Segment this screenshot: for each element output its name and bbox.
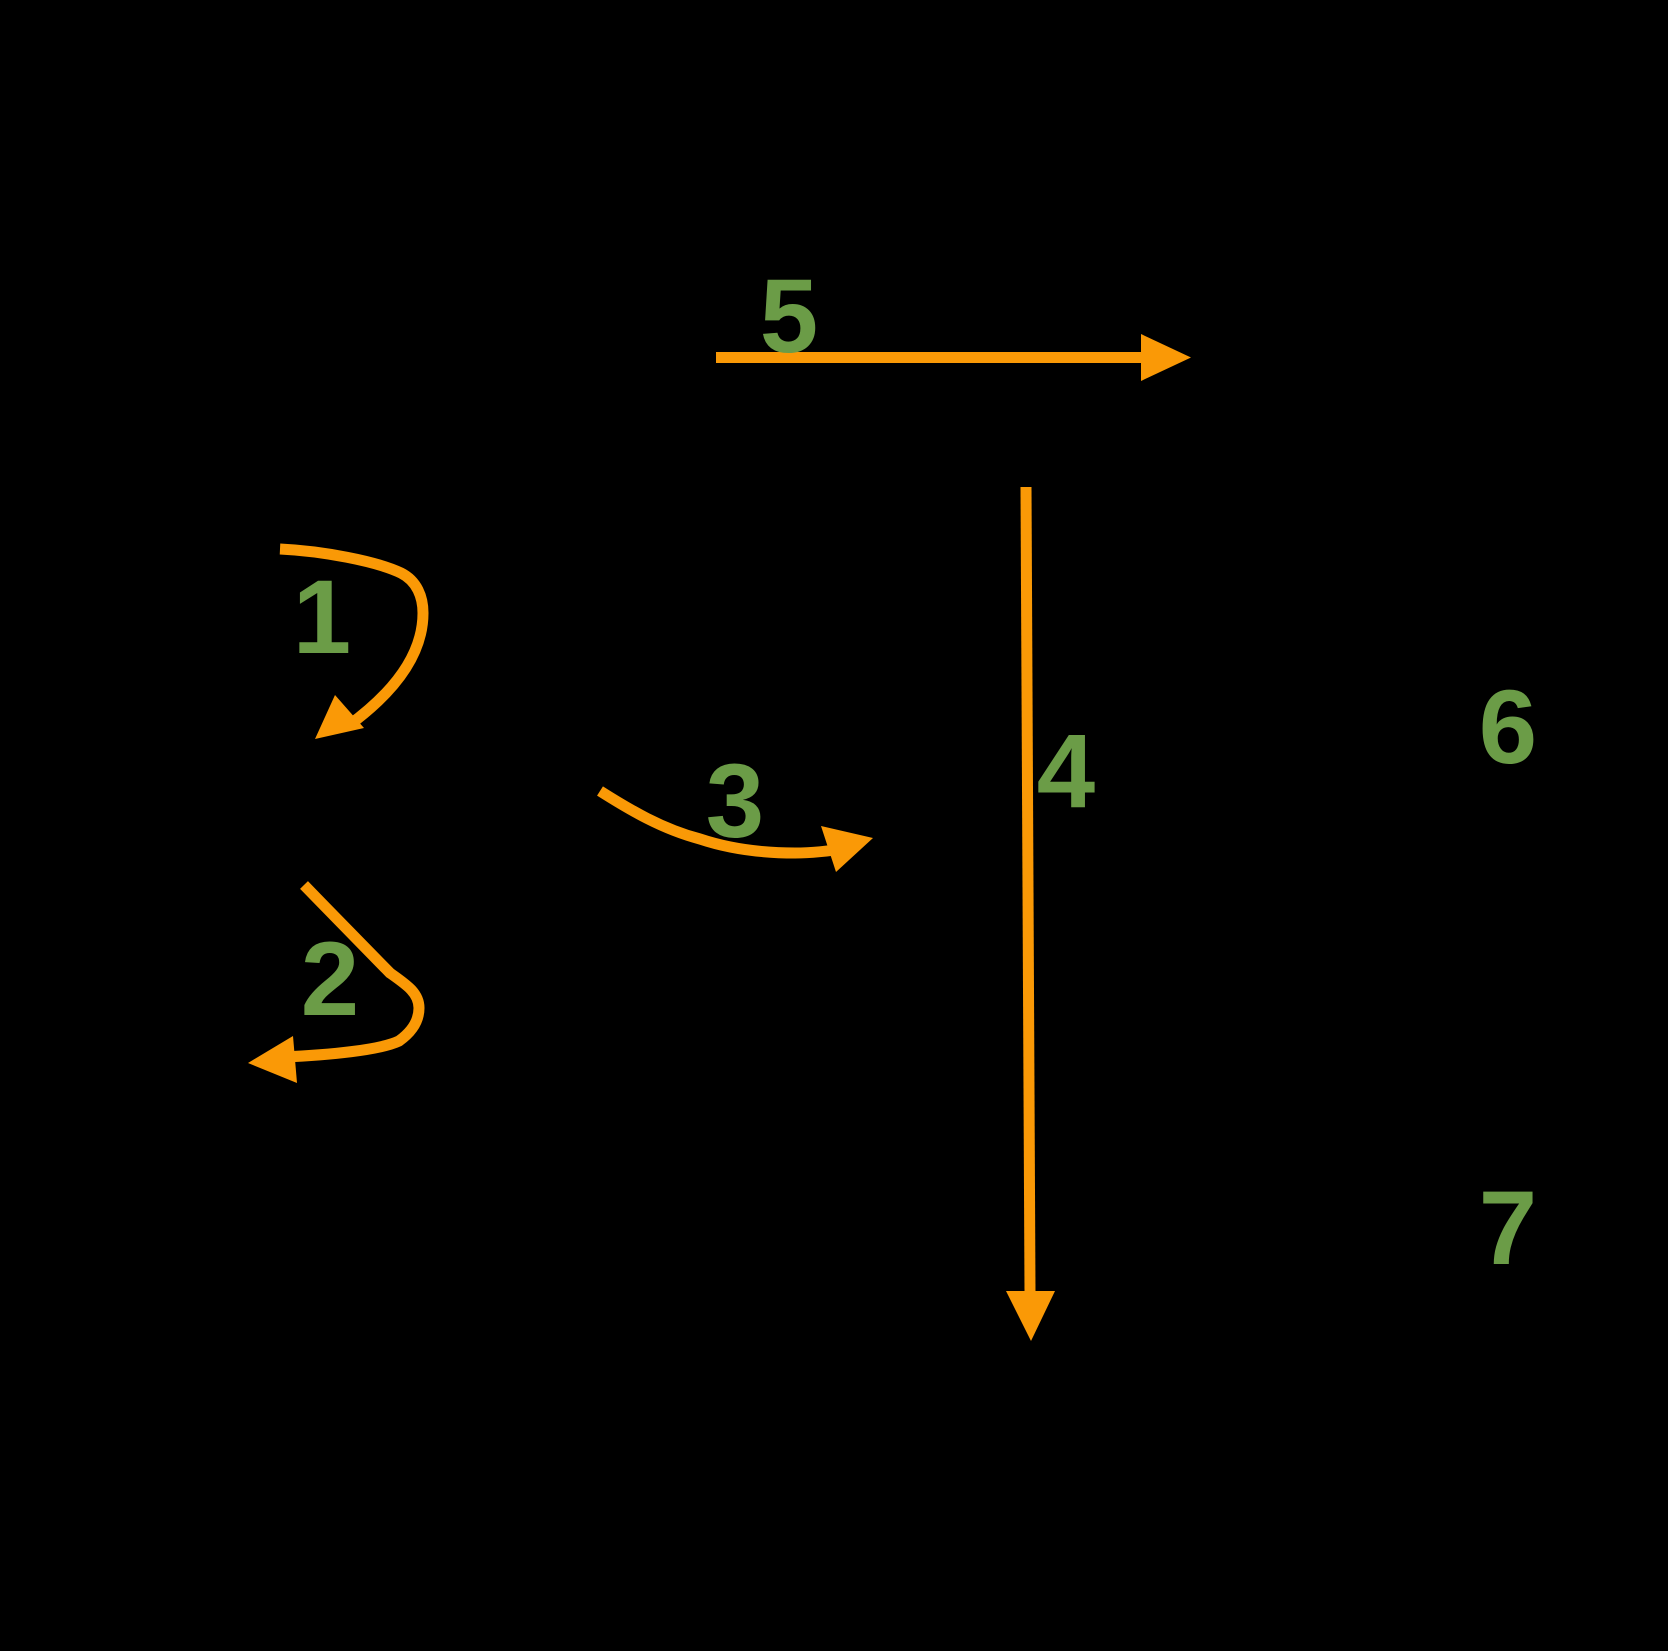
stroke 5 arrowhead — [1141, 334, 1191, 381]
svg-text:2: 2 — [301, 921, 359, 1038]
stroke 5 arrow (long horizontal, rightward) — [716, 352, 1145, 363]
stroke 2 arrowhead — [248, 1036, 297, 1083]
stroke 1 number base bar — [301, 644, 344, 653]
stroke 1 arrowhead — [315, 695, 364, 739]
svg-text:7: 7 — [1479, 1170, 1537, 1287]
stroke 4 arrowhead — [1006, 1291, 1055, 1341]
svg-text:6: 6 — [1479, 669, 1537, 786]
svg-text:4: 4 — [1037, 713, 1095, 830]
svg-text:3: 3 — [706, 743, 764, 860]
stroke 2 arrow (curved hook, lower-left radical) — [283, 885, 419, 1057]
stroke 4 arrow (long vertical, downward) — [1026, 487, 1030, 1292]
svg-text:1: 1 — [293, 559, 351, 676]
stroke 3 arrowhead — [821, 826, 873, 872]
stroke 1 arrow (curved, upper-left radical) — [280, 549, 423, 726]
stroke 3 arrow (gentle arc to the right) — [600, 791, 848, 853]
svg-text:5: 5 — [760, 258, 818, 375]
